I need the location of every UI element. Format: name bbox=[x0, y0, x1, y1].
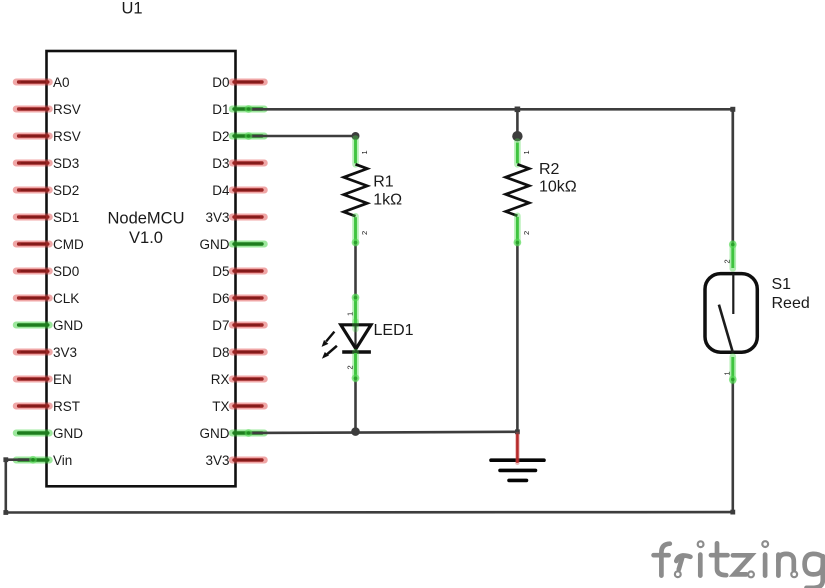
svg-text:SD3: SD3 bbox=[53, 156, 79, 171]
wire bend square at ground symbol corner bbox=[515, 429, 520, 434]
svg-text:1: 1 bbox=[522, 150, 531, 154]
fritzing watermark logo bbox=[654, 541, 823, 588]
U1 right pin 3V3 (row 6) bbox=[205, 210, 264, 225]
U1 left pin GND (row 14) bbox=[16, 426, 83, 441]
ground symbol pin (red) bbox=[515, 434, 520, 463]
U1 right pin GND (row 14) bbox=[200, 426, 265, 441]
svg-text:CMD: CMD bbox=[53, 237, 84, 252]
svg-text:SD2: SD2 bbox=[53, 183, 79, 198]
svg-text:D8: D8 bbox=[212, 345, 229, 360]
wire: R1 pin 2 down to LED1 anode bbox=[354, 243, 357, 298]
wire: right vertical from S1 pin 1 down to bottom rail bbox=[731, 380, 734, 513]
U1 left pin RST (row 13) bbox=[16, 399, 80, 414]
U1 left pin SD0 (row 8) bbox=[16, 264, 79, 279]
svg-text:3V3: 3V3 bbox=[205, 210, 229, 225]
U1 right pin D6 (row 9) bbox=[212, 291, 264, 306]
svg-text:GND: GND bbox=[53, 426, 83, 441]
wire bend point square at D1/reed corner bbox=[730, 107, 735, 112]
svg-text:D2: D2 bbox=[212, 129, 229, 144]
svg-text:2: 2 bbox=[522, 231, 531, 235]
svg-text:D7: D7 bbox=[212, 318, 229, 333]
U1 right pin GND (row 7) bbox=[200, 237, 265, 252]
svg-text:1kΩ: 1kΩ bbox=[373, 191, 402, 208]
U1 right pin D7 (row 10) bbox=[212, 318, 264, 333]
svg-text:S1: S1 bbox=[772, 276, 792, 293]
resistor R1 1kΩ bbox=[344, 139, 370, 247]
svg-text:SD0: SD0 bbox=[53, 264, 79, 279]
ground symbol bars bbox=[491, 460, 544, 480]
svg-text:2: 2 bbox=[346, 365, 355, 369]
wire: Vin stub going left from U1.Vin bbox=[6, 458, 33, 461]
svg-text:RSV: RSV bbox=[53, 129, 81, 144]
U1 right pin D3 (row 4) bbox=[212, 156, 264, 171]
svg-text:10kΩ: 10kΩ bbox=[539, 179, 577, 196]
U1 left pin SD3 (row 4) bbox=[16, 156, 79, 171]
svg-text:2: 2 bbox=[360, 231, 369, 235]
svg-text:RSV: RSV bbox=[53, 102, 81, 117]
wire: LED1 cathode down to GND net junction bbox=[354, 378, 357, 432]
svg-text:R1: R1 bbox=[373, 174, 394, 191]
U1 left pin RSV (row 3) bbox=[16, 129, 81, 144]
wire terminal dot at U1.D2 bbox=[245, 132, 253, 140]
svg-text:Vin: Vin bbox=[53, 453, 72, 468]
svg-text:2: 2 bbox=[723, 259, 732, 263]
wire: GND net horizontal from U1.GND to ground symbol column bbox=[250, 432, 517, 433]
U1 left pin RSV (row 2) bbox=[16, 102, 81, 117]
bend point dot at R1 pin 1 / net D2 corner bbox=[352, 132, 360, 140]
resistor R2 10kΩ bbox=[506, 142, 531, 247]
U1 left pin GND (row 10) bbox=[16, 318, 83, 333]
svg-text:LED1: LED1 bbox=[374, 322, 414, 339]
wire bend square at bottom-right corner bbox=[730, 510, 735, 515]
svg-text:RX: RX bbox=[211, 372, 230, 387]
svg-text:V1.0: V1.0 bbox=[129, 229, 163, 247]
U1 right pin D4 (row 5) bbox=[212, 183, 264, 198]
svg-text:EN: EN bbox=[53, 372, 72, 387]
svg-text:D5: D5 bbox=[212, 264, 229, 279]
U1 right pin D8 (row 11) bbox=[212, 345, 264, 360]
svg-text:D6: D6 bbox=[212, 291, 229, 306]
op-amp U1 : NodeMCU IC body bbox=[47, 51, 236, 486]
wire: left vertical from Vin corner down to bottom rail bbox=[5, 460, 8, 513]
diode LED1 bbox=[341, 294, 371, 383]
svg-text:1: 1 bbox=[346, 312, 355, 316]
svg-text:NodeMCU: NodeMCU bbox=[107, 210, 184, 228]
junction node dot at R2 pin 1 bbox=[512, 131, 522, 141]
R2 value label bbox=[539, 161, 577, 196]
U1 left pin A0 (row 1) bbox=[16, 75, 69, 90]
wire bend square at Vin corner bbox=[3, 457, 8, 462]
svg-text:U1: U1 bbox=[122, 0, 143, 17]
wire: net D2 horizontal from U1.D2 to R1 pin 1 bbox=[249, 135, 356, 138]
U1 left pin CMD (row 7) bbox=[16, 237, 84, 252]
U1 left pin SD1 (row 6) bbox=[16, 210, 79, 225]
U1 left pin SD2 (row 5) bbox=[16, 183, 79, 198]
LED1 emitted-light arrow 2 bbox=[322, 346, 337, 359]
svg-text:RST: RST bbox=[53, 399, 80, 414]
LED1 emitted-light arrow 1 bbox=[322, 332, 335, 347]
svg-text:GND: GND bbox=[53, 318, 83, 333]
wire bend square where R2 branch taps net D1 bbox=[515, 107, 521, 113]
svg-text:A0: A0 bbox=[53, 75, 70, 90]
S1 reference and value label bbox=[772, 276, 810, 312]
U1 left pin Vin (row 15) bbox=[16, 453, 72, 468]
wire: bottom rail from left corner to below S1 bbox=[6, 511, 733, 514]
svg-text:D3: D3 bbox=[212, 156, 229, 171]
U1 left pin EN (row 12) bbox=[16, 372, 72, 387]
svg-text:SD1: SD1 bbox=[53, 210, 79, 225]
U1 right pin D5 (row 8) bbox=[212, 264, 264, 279]
U1 part name label NodeMCU V1.0 bbox=[107, 210, 184, 247]
svg-text:3V3: 3V3 bbox=[205, 453, 229, 468]
U1 left pin 3V3 (row 11) bbox=[16, 345, 77, 360]
wire terminal dot at U1.Vin bbox=[29, 456, 37, 464]
U1 right pin 3V3 (row 15) bbox=[205, 453, 264, 468]
svg-text:GND: GND bbox=[200, 426, 230, 441]
svg-text:Reed: Reed bbox=[772, 295, 810, 312]
U1 right pin TX (row 13) bbox=[212, 399, 264, 414]
wire terminal dot at U1.D1 bbox=[245, 105, 253, 113]
svg-text:CLK: CLK bbox=[53, 291, 79, 306]
U1 right pin RX (row 12) bbox=[211, 372, 265, 387]
junction node dot on GND net below LED1 bbox=[351, 427, 360, 436]
R1 value label bbox=[373, 174, 402, 209]
svg-text:R2: R2 bbox=[539, 161, 560, 178]
U1 right pin D2 (row 3) bbox=[212, 129, 264, 144]
wire terminal dot at U1.GND bbox=[245, 429, 253, 437]
LED1 anode green pin glow over triangle edge bbox=[352, 322, 359, 330]
wire bend square at bottom-left corner bbox=[3, 510, 8, 515]
svg-text:GND: GND bbox=[200, 237, 230, 252]
wire: net D1 horizontal from U1.D1 to reed switch column bbox=[249, 108, 733, 111]
switch S1 Reed bbox=[705, 241, 757, 384]
U1 left pin CLK (row 9) bbox=[16, 291, 79, 306]
U1 right pin D0 (row 1) bbox=[212, 75, 264, 90]
svg-text:TX: TX bbox=[212, 399, 229, 414]
svg-text:D1: D1 bbox=[212, 102, 229, 117]
svg-text:D0: D0 bbox=[212, 75, 229, 90]
wire: short drop from net D1 to R2 pin 1 bbox=[516, 109, 519, 136]
svg-text:3V3: 3V3 bbox=[53, 345, 77, 360]
wire: R2 pin 2 down to GND net bbox=[516, 243, 519, 432]
svg-text:1: 1 bbox=[360, 150, 369, 154]
U1 right pin D1 (row 2) bbox=[212, 102, 264, 117]
svg-text:D4: D4 bbox=[212, 183, 230, 198]
svg-text:1: 1 bbox=[723, 371, 732, 375]
wire: net D1 vertical down right side to S1 pin 2 bbox=[731, 109, 734, 244]
